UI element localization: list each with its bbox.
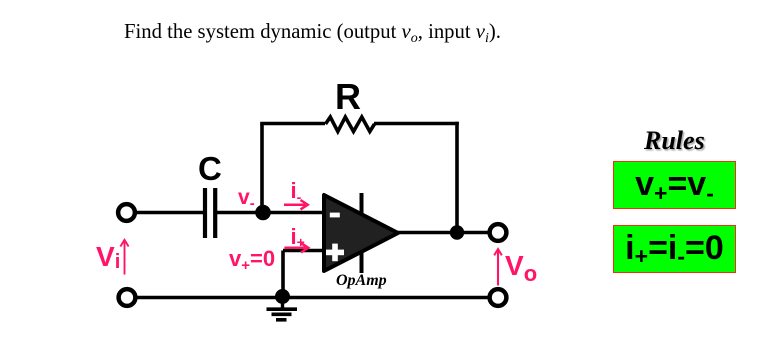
ground symbol bbox=[281, 297, 284, 308]
wire capacitor to node and to op-amp minus input bbox=[217, 211, 324, 215]
op-amp plus sign bbox=[326, 250, 344, 256]
op-amp U1 power line bbox=[360, 193, 364, 273]
label v+=0 bbox=[229, 246, 275, 272]
label OpAmp bbox=[336, 272, 387, 290]
arrow Vo bbox=[497, 250, 499, 286]
label Vi bbox=[96, 241, 120, 273]
op-amp minus sign bbox=[330, 213, 340, 218]
rule box i+=i-=0 bbox=[613, 225, 736, 273]
wire feedback top left bbox=[260, 122, 325, 126]
ground junction dot bbox=[275, 289, 290, 304]
wire bottom rail bbox=[136, 296, 489, 300]
output junction dot bbox=[450, 225, 464, 239]
output terminal top bbox=[490, 224, 507, 241]
arrow i- bbox=[284, 203, 305, 206]
resistor R zigzag bbox=[326, 117, 375, 132]
label R bbox=[335, 76, 361, 118]
input terminal top bbox=[118, 204, 135, 221]
label Rules bbox=[644, 126, 705, 156]
wire feedback right vertical bbox=[455, 122, 459, 233]
label C bbox=[198, 150, 222, 188]
label i+ bbox=[291, 224, 305, 250]
wire feedback left vertical bbox=[260, 124, 264, 215]
op-amp U1 triangle bbox=[324, 195, 398, 271]
arrow Vi bbox=[124, 241, 126, 275]
label Vo bbox=[505, 250, 537, 282]
label v- bbox=[238, 186, 255, 210]
arrow i+ bbox=[284, 247, 305, 250]
capacitor C plates bbox=[205, 188, 215, 238]
wire op-amp output bbox=[397, 231, 490, 235]
label i- bbox=[291, 178, 302, 204]
wire input to capacitor bbox=[136, 211, 203, 215]
rule box v+=v- bbox=[613, 161, 736, 209]
wire plus input bbox=[283, 249, 324, 253]
wire feedback top right bbox=[374, 122, 459, 126]
input terminal bottom bbox=[119, 289, 136, 306]
output terminal bottom bbox=[490, 289, 507, 306]
node v- junction dot bbox=[255, 205, 271, 221]
title bbox=[124, 21, 501, 44]
wire plus input down to ground bbox=[281, 251, 285, 298]
